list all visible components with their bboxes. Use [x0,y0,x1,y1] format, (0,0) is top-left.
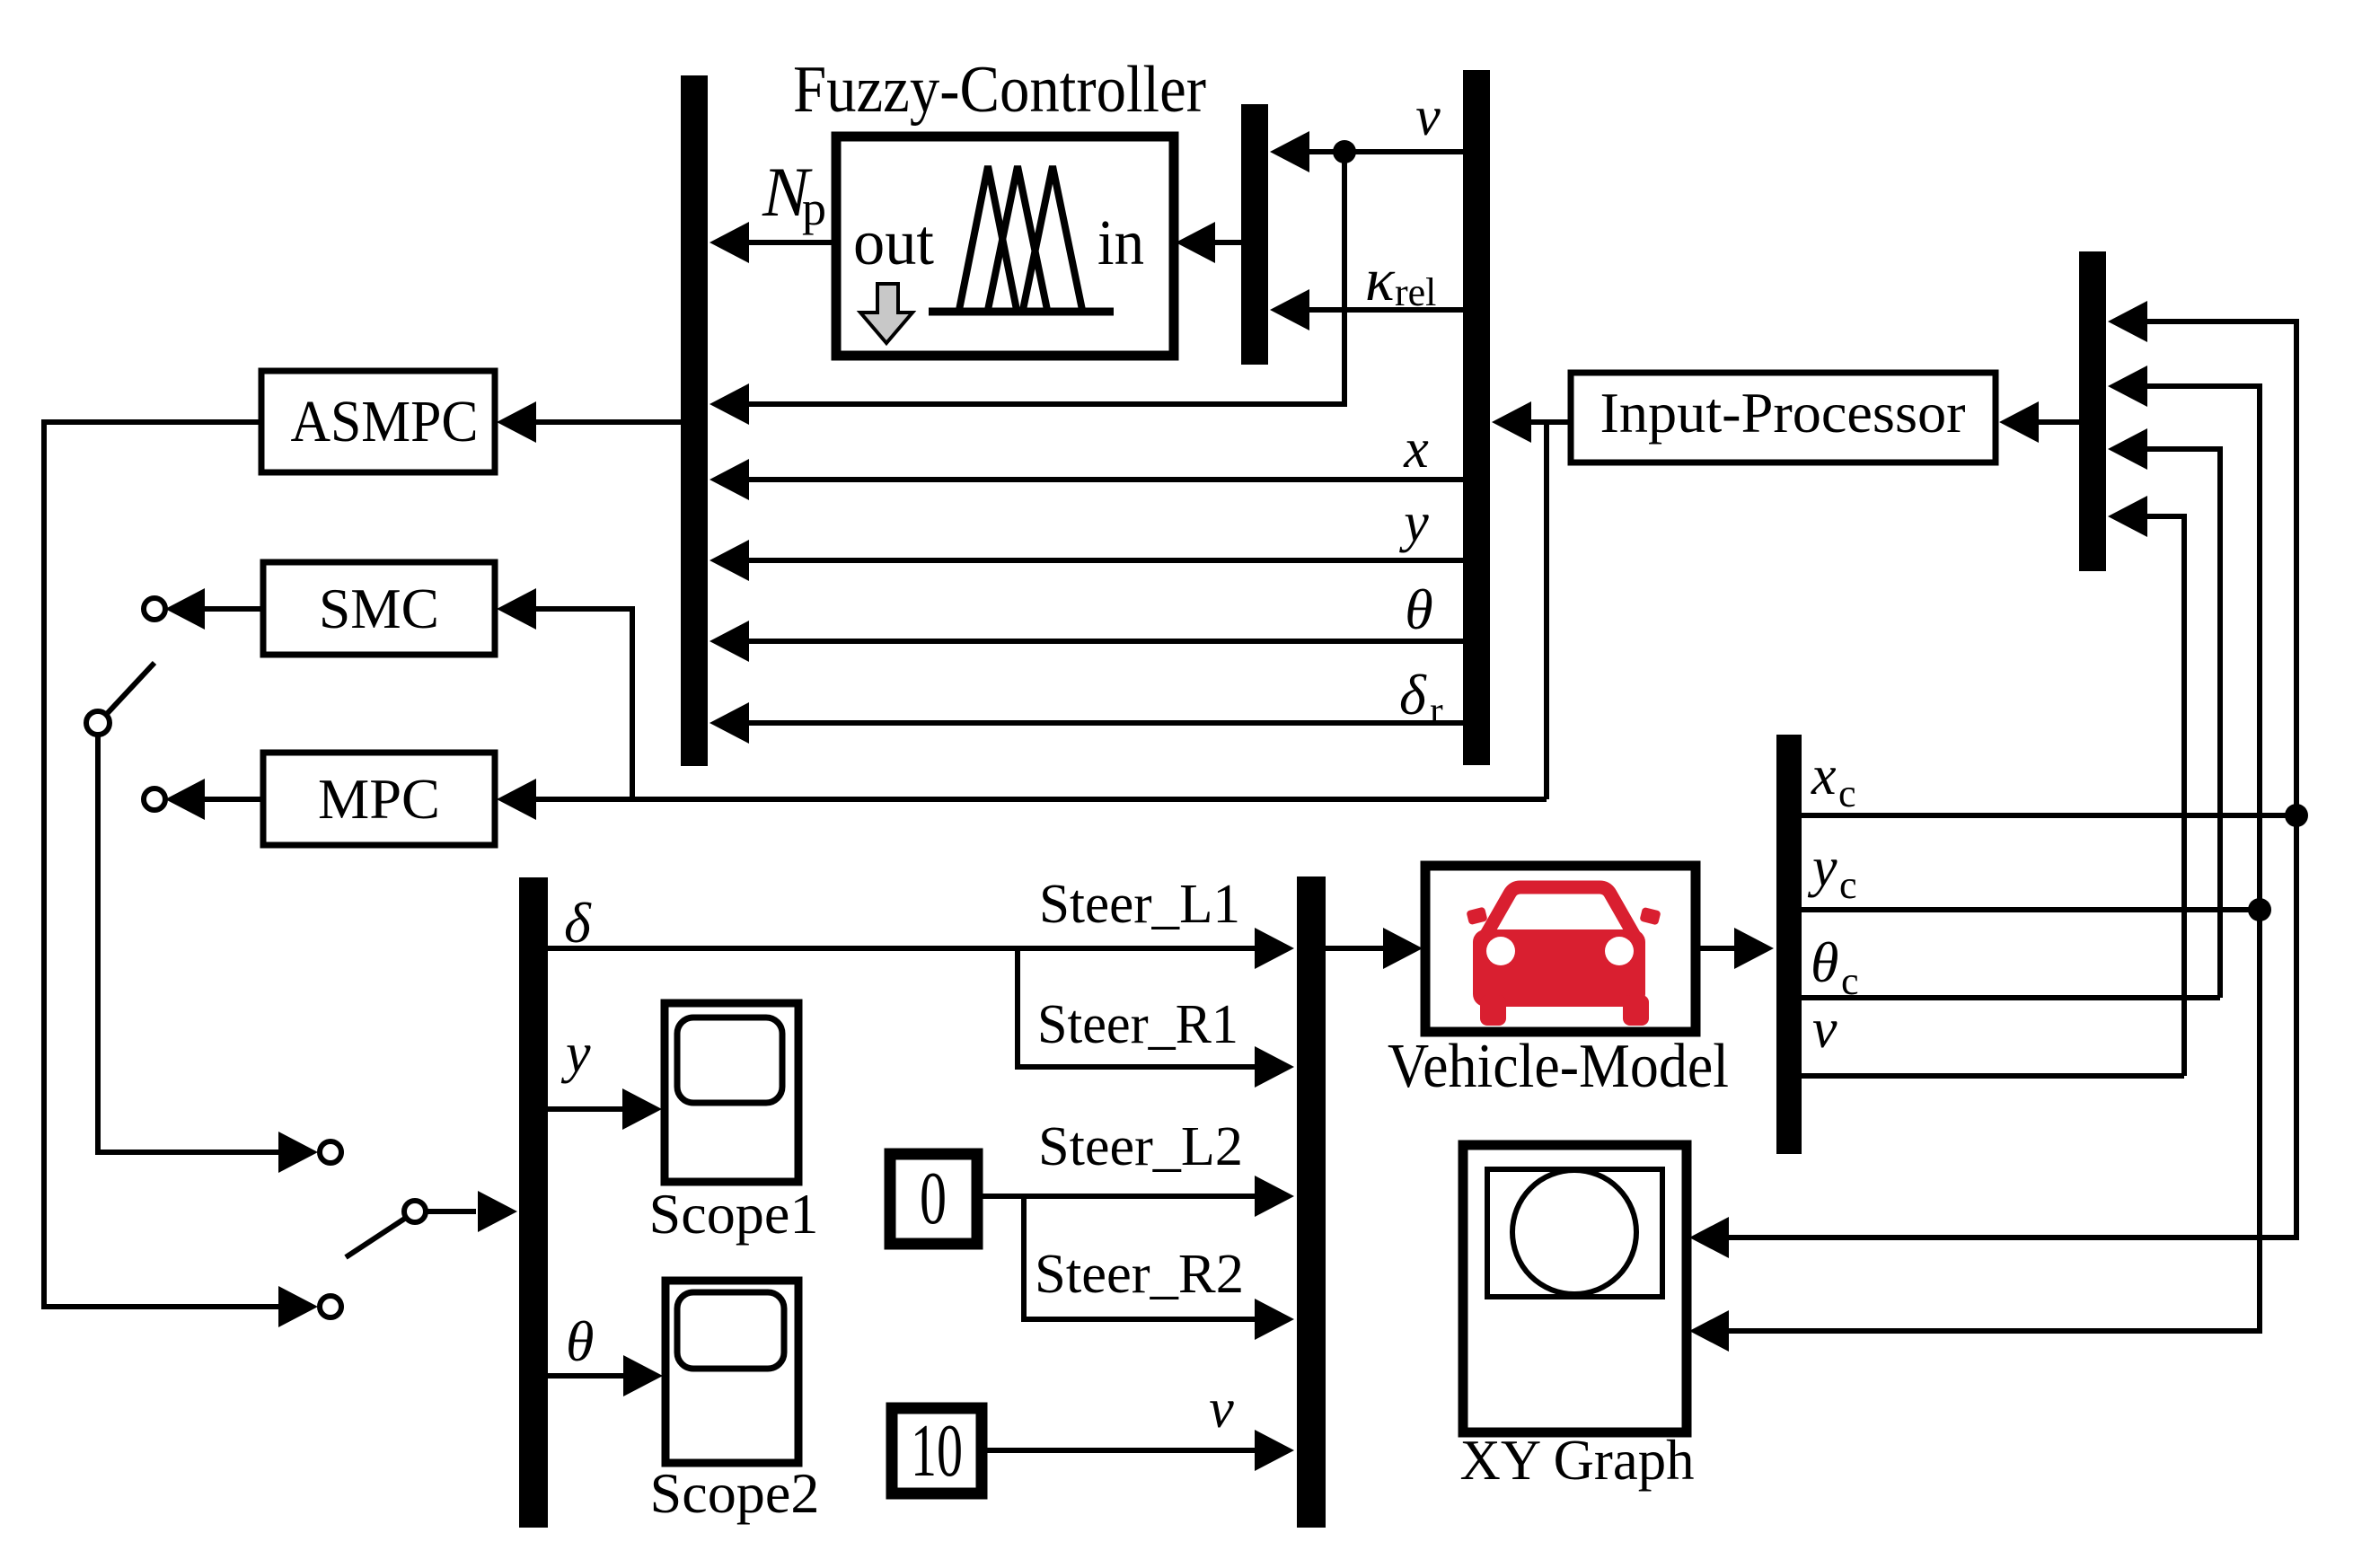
block MPC [263,753,495,845]
svg-text:XY Graph: XY Graph [1460,1429,1695,1492]
bus bar B5 (scope demux bar) [519,877,548,1528]
label theta scope [566,1309,594,1373]
label kappa_rel [1365,245,1436,314]
svg-text:x: x [1403,418,1429,480]
wire x_c from B7 [1802,813,2296,818]
port label in [1097,207,1144,278]
label Np [762,153,826,235]
wire delta Steer_L1 [548,928,1294,969]
svg-text:δ: δ [1399,663,1427,727]
wire theta to Scope2 [548,1355,663,1396]
block Scope2 box [665,1281,798,1463]
junction dot on x_c [2285,804,2308,827]
label theta_c [1811,930,1859,1003]
wire switch-2 pole to scope bar [426,1191,517,1232]
switch-1 lever [105,663,154,716]
wire y_c feedback [2108,366,2260,910]
svg-text:c: c [1838,771,1856,815]
arrow into switch-2 upper throw [278,1132,318,1173]
label Fuzzy-Controller title [793,53,1206,127]
svg-text:v: v [1415,86,1441,147]
label x [1403,418,1429,480]
svg-text:x: x [1811,745,1837,806]
wire theta_c feedback [2108,428,2220,998]
svg-text:δ: δ [564,891,592,955]
label delta_r [1399,663,1443,733]
svg-text:Steer_R2: Steer_R2 [1035,1244,1244,1305]
wire switch-1 pole to switch-2 upper throw [98,735,280,1152]
car icon left leg [1480,995,1506,1026]
label y scope [560,1023,591,1084]
car icon right headlight [1605,937,1634,965]
bus bar B4 (feedback collector mux) [2079,251,2106,571]
svg-text:Fuzzy-Controller: Fuzzy-Controller [793,53,1206,127]
label x_c [1811,745,1856,815]
bus bar B3 (signal distribution bar) [1463,70,1490,765]
wire delta_r B3 to B1 [709,702,1463,744]
label v constant line [1209,1379,1234,1440]
switch-1 upper throw terminal (SMC) [144,598,165,620]
label Vehicle-Model [1388,1032,1729,1101]
label Steer_L2 [1038,1116,1243,1177]
wire v_c feedback [2108,496,2184,1076]
block XY Graph box [1463,1145,1687,1432]
wire Vehicle-Model to B7 [1696,928,1774,969]
wire y B3 to B1 [709,540,1463,581]
wire B2 to fuzzy in port [1176,222,1241,263]
wire kappa_rel B3 to B2 [1270,289,1463,330]
svg-text:y: y [1807,837,1838,898]
wire B1 to ASMPC [497,401,681,443]
wire MPC input from IP branch [497,779,1547,820]
svg-text:Scope2: Scope2 [650,1461,820,1525]
switch-2 pole terminal [404,1201,426,1222]
fuzzy membership triangle 3 [1023,166,1082,310]
wire B1 to SMC via riser [497,588,632,799]
svg-text:θ: θ [1811,930,1838,994]
svg-text:Steer_L2: Steer_L2 [1038,1116,1243,1177]
car icon right leg [1623,995,1649,1026]
junction dot on y_c [2248,898,2271,921]
svg-text:c: c [1839,863,1857,907]
label v top [1415,86,1441,147]
car icon left headlight [1486,937,1515,965]
svg-text:θ: θ [566,1309,594,1373]
wire y to Scope1 [548,1088,662,1130]
svg-text:0: 0 [920,1157,947,1240]
label Scope1 [649,1182,819,1246]
svg-text:p: p [802,181,826,235]
svg-text:c: c [1841,959,1859,1003]
arrow into switch-2 lower throw [278,1286,318,1327]
junction dot on v line [1333,140,1356,163]
switch-1 lower throw terminal (MPC) [144,788,165,810]
block Fuzzy-Controller box [836,137,1174,356]
car icon left mirror [1466,907,1487,926]
label delta scope [564,891,592,955]
fuzzy axis baseline [929,308,1114,316]
svg-text:Steer_L1: Steer_L1 [1039,874,1240,935]
bus bar B2 (fuzzy input mux) [1241,104,1268,365]
wire theta_c from B7 [1802,995,2220,1000]
svg-text:out: out [853,207,934,278]
fuzzy membership triangle 1 [959,166,1017,310]
svg-text:Steer_R1: Steer_R1 [1037,994,1238,1055]
label v right [1812,999,1838,1060]
wire IP output to B3 [1492,401,1571,443]
block Constant 0 [890,1154,977,1244]
block Input-Processor [1571,373,1996,462]
label y [1398,492,1429,553]
svg-text:MPC: MPC [318,767,440,831]
label XY Graph [1460,1429,1695,1492]
bus bar B1 (controller input mux) [681,75,708,766]
wire ASMPC output loop [44,422,280,1307]
block SMC [263,562,495,655]
wire B4 to IP input [1999,401,2079,443]
bus bar B6 (vehicle input mux) [1297,876,1326,1528]
car icon roof [1481,887,1639,944]
label Scope2 [650,1461,820,1525]
block Scope1 box [665,1003,798,1182]
label Steer_R2 [1035,1244,1244,1305]
svg-text:θ: θ [1405,577,1432,641]
fuzzy membership triangle 2 [988,166,1047,310]
wire y_c from B7 [1802,907,2260,912]
fuzzy gray down-arrow [860,284,912,343]
label Steer_L1 [1039,874,1240,935]
wire x_c feedback [2108,301,2296,815]
svg-text:y: y [560,1023,591,1084]
switch-1 pole terminal [86,711,110,735]
wire Np fuzzy out to B1 [709,222,836,263]
wire v B3 to B2 [1270,131,1463,172]
wire v branch down to B1 [709,152,1344,425]
wire Steer_R1 branch [1018,948,1294,1088]
svg-text:v: v [1812,999,1838,1060]
block Vehicle-Model box [1425,866,1696,1032]
svg-text:10: 10 [911,1409,963,1493]
label Steer_R1 [1037,994,1238,1055]
svg-text:Scope1: Scope1 [649,1182,819,1246]
label theta [1405,577,1432,641]
svg-text:ASMPC: ASMPC [291,389,479,454]
bus bar B7 (vehicle output demux) [1776,735,1802,1154]
car icon right mirror [1639,907,1661,926]
label y_c [1807,837,1857,907]
svg-text:κ: κ [1365,245,1396,313]
svg-text:Vehicle-Model: Vehicle-Model [1388,1032,1729,1101]
block ASMPC [261,371,495,472]
wire SMC output [165,588,263,630]
wire y_c down to XY graph [1689,910,2260,1352]
car icon body [1473,929,1645,1007]
wire v from constant 10 [982,1430,1294,1471]
wire theta B3 to B1 [709,621,1463,662]
switch-2 lower throw terminal [320,1296,341,1317]
svg-text:v: v [1209,1379,1234,1440]
wire Steer_L2 from constant 0 [977,1176,1294,1217]
svg-text:SMC: SMC [319,577,439,640]
wire B6 to Vehicle-Model [1326,928,1423,969]
wire x_c down to XY graph [1689,815,2296,1258]
wire Steer_R2 branch [1024,1196,1294,1340]
svg-text:rel: rel [1395,270,1436,314]
wire x B3 to B1 [709,459,1463,500]
wire MPC output [165,779,263,820]
svg-text:y: y [1398,492,1429,553]
switch-2 upper throw terminal [320,1141,341,1163]
svg-text:Input-Processor: Input-Processor [1600,381,1966,445]
svg-text:in: in [1097,207,1144,278]
block Constant 10 [892,1408,982,1493]
switch-2 lever [346,1218,406,1257]
svg-text:r: r [1430,689,1443,733]
wire v from B7 [1802,1073,2184,1079]
port label out [853,207,934,278]
wire IP branch riser [1544,422,1549,799]
